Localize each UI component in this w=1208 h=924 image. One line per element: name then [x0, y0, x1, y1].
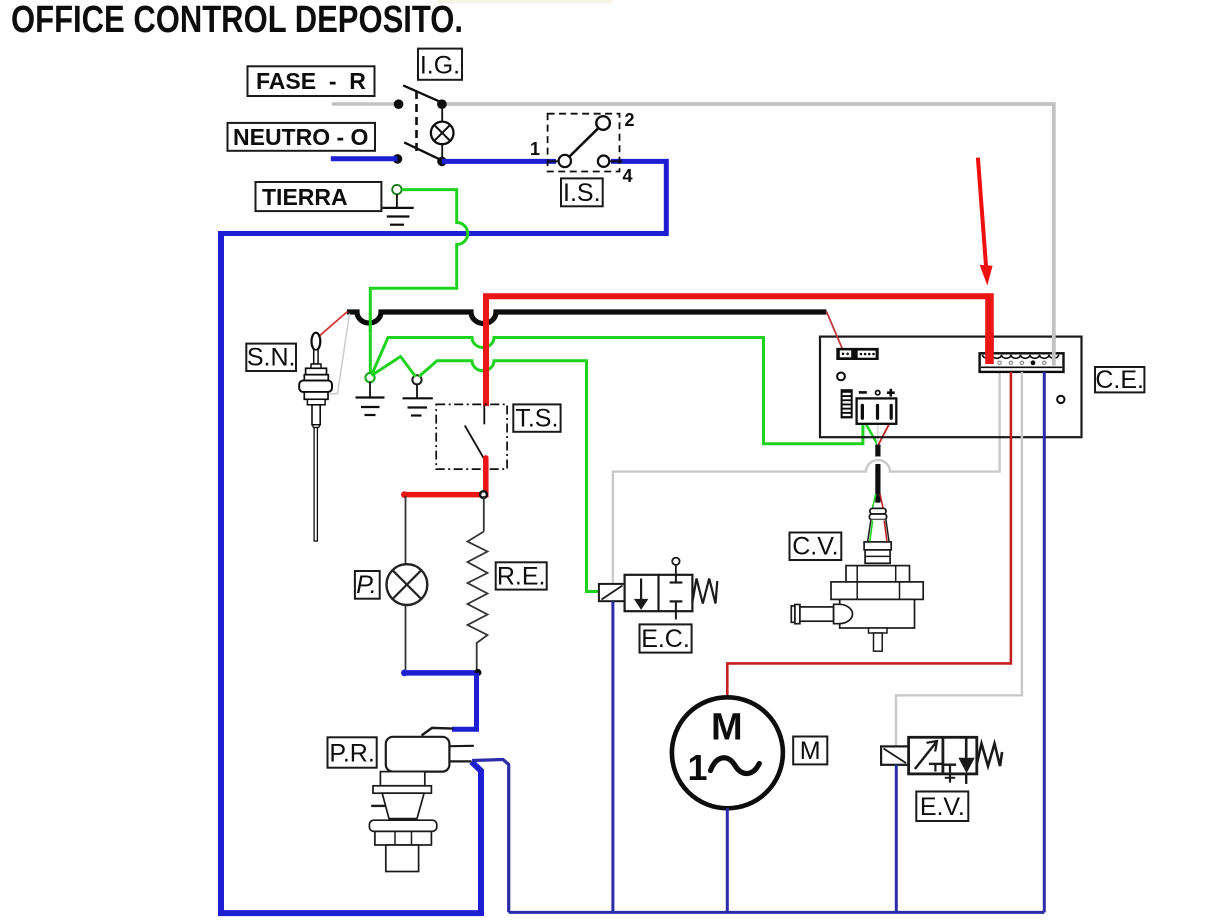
wire thin gray middle slot to cable	[877, 420, 879, 445]
wire neutral blue up to P.R.	[472, 762, 482, 916]
label box P.	[355, 571, 380, 599]
label box S.N.	[246, 344, 296, 372]
svg-text:I.G.: I.G.	[420, 52, 460, 80]
svg-text:1: 1	[687, 747, 707, 788]
valve E.V. body	[909, 737, 977, 774]
cable to C.V.	[875, 445, 880, 503]
blue wire end cap dot	[401, 670, 408, 677]
svg-text:NEUTRO - O: NEUTRO - O	[233, 124, 368, 150]
valve E.C. pilot circle	[672, 558, 679, 575]
wire red bus from T.S. corner to C.E.	[486, 296, 990, 406]
board DIP block	[841, 389, 853, 418]
wire neutral blue bottom thick	[218, 910, 481, 916]
pressure switch P.R. microswitch body	[386, 737, 450, 772]
wire thin blue C.E. to bottom bus	[1043, 372, 1046, 913]
switch I.G. pole 1 (phase)	[394, 85, 447, 109]
control board C.E. outline	[820, 337, 1082, 438]
svg-text:FASE - R: FASE - R	[256, 68, 366, 94]
valve E.C. blocked ports	[670, 575, 683, 620]
wire red T.S. to junction and lamp P.	[404, 458, 486, 495]
valve E.C. flow arrow	[634, 579, 649, 610]
wire lamp P. bottom lead	[405, 605, 407, 671]
earth terminal B	[412, 375, 421, 384]
switch I.S. terminal 4	[598, 156, 609, 167]
switch I.S. leads	[548, 160, 559, 162]
label box C.E.	[1095, 366, 1144, 394]
wire thin gray C.E. to E.V.	[896, 372, 1022, 747]
wire green 2 terminal B to E.C.	[419, 361, 599, 592]
lamp P.	[387, 564, 428, 605]
valve E.V. blocked ports	[929, 764, 956, 783]
wire green link terminal A to B	[372, 357, 416, 377]
svg-text:C.E.: C.E.	[1095, 366, 1144, 394]
board mounting hole left	[837, 373, 845, 381]
label box NEUTRO - O	[228, 123, 376, 151]
label box C.V.	[790, 533, 842, 561]
motor 1~ mark	[687, 747, 759, 788]
junction node lamp/resistor bottom	[474, 669, 481, 676]
lamp inside I.G.	[431, 109, 454, 157]
switch I.S. terminal 1	[559, 155, 571, 167]
wire neutral blue I.G. to I.S.	[442, 159, 556, 164]
label box E.C.	[640, 624, 692, 653]
label box R.E.	[496, 562, 547, 590]
red wire end cap dot	[401, 491, 408, 498]
switch I.G. pole 2 (neutral)	[393, 142, 447, 166]
svg-text:T.S.: T.S.	[515, 404, 558, 432]
earth terminal A	[365, 373, 374, 382]
wire earth green from TIERRA down-left to terminal A	[370, 190, 467, 374]
board connector J2 (3 slots)	[857, 398, 897, 423]
C.V. spout	[791, 604, 852, 623]
wire thin red C.E. to motor M	[727, 372, 1011, 698]
wire phase gray main to C.E.	[442, 104, 1054, 365]
wire thin red bus end to board connector	[827, 312, 843, 350]
label box M	[793, 737, 827, 766]
valve E.C. solenoid	[599, 584, 625, 601]
ground symbol B	[403, 384, 433, 416]
wire thin blue bottom bus	[509, 911, 1045, 914]
wire thin red bus to S.N. eyelet	[318, 312, 347, 337]
wire gray main end overlay into strip	[1052, 333, 1056, 366]
pressure switch P.R. NO lead	[449, 760, 471, 762]
label box I.S.	[561, 178, 603, 206]
resistor R.E. top lead	[483, 496, 485, 532]
board connector J1 (top-left)	[836, 348, 878, 360]
valve E.V. exhaust arrow	[958, 737, 974, 784]
thermostat T.S. dash-dot box	[436, 404, 507, 469]
C.V. flange 1	[846, 566, 910, 582]
C.V. plug neck with strands	[868, 520, 890, 542]
svg-text:P.R.: P.R.	[329, 739, 374, 767]
thermostat T.S. contact	[465, 406, 485, 459]
ground symbol A	[356, 382, 385, 415]
polarity marks - o +	[859, 389, 895, 397]
svg-text:M: M	[800, 737, 821, 765]
earth terminal at TIERRA	[392, 185, 401, 208]
wire green overlay through bus hop	[369, 313, 372, 332]
wire green 1 terminal A to C.E. connector	[372, 338, 863, 444]
cable colored strands	[873, 494, 884, 508]
label box T.S.	[513, 404, 560, 432]
wire thin blue E.C. to bottom bus	[611, 601, 614, 912]
pressure switch P.R. body stack	[369, 772, 436, 872]
wire thin blue P.R. NO to bottom bus	[472, 760, 509, 913]
C.V. flange 2	[831, 582, 923, 600]
C.V. bottom nozzle	[869, 628, 888, 651]
svg-text:S.N.: S.N.	[247, 344, 296, 372]
valve E.V. solenoid	[881, 746, 909, 764]
svg-text:E.C.: E.C.	[641, 625, 690, 653]
label box P.R.	[328, 737, 377, 767]
svg-text:M: M	[711, 707, 743, 749]
wire thin blue E.V. to bottom bus	[895, 765, 898, 913]
pressure switch P.R. NC lead	[449, 745, 474, 748]
valve E.C. body	[625, 575, 693, 611]
board mounting hole right	[1057, 396, 1064, 403]
motor M circle	[672, 697, 783, 808]
wire red bus end overlay into strip	[985, 333, 994, 364]
svg-text:P.: P.	[356, 571, 376, 599]
switch I.S. dashed box	[548, 114, 620, 172]
C.V. plug rings	[869, 508, 886, 519]
svg-text:2: 2	[625, 110, 635, 130]
board terminal strip	[980, 353, 1064, 372]
valve E.C. spring	[692, 579, 717, 604]
wire lamp P. top lead	[405, 496, 407, 564]
junction node below T.S.	[480, 491, 487, 498]
wire blue junction under lamp P.	[404, 670, 478, 676]
pressure switch P.R. common lead	[422, 728, 454, 736]
svg-text:4: 4	[623, 166, 633, 186]
wire neutral blue left bus vertical	[218, 231, 224, 916]
svg-text:1: 1	[530, 139, 540, 159]
switch I.G. mechanical link (dashed)	[415, 91, 418, 152]
svg-text:R.E.: R.E.	[497, 562, 546, 590]
resistor R.E. zigzag	[468, 532, 488, 672]
label box E.V.	[916, 792, 968, 822]
valve E.V. flow arrow (open head)	[915, 741, 937, 769]
wire thin gray C.E. to E.C. with hop over cable	[866, 460, 890, 471]
svg-text:E.V.: E.V.	[920, 793, 965, 821]
wire thin gray bus to S.N. body	[330, 314, 350, 395]
C.V. main body	[840, 599, 915, 628]
probe S.N. body	[299, 350, 332, 541]
wire neutral blue stub	[331, 156, 398, 161]
valve E.V. spring	[977, 744, 1002, 767]
ground symbol TIERRA	[383, 208, 414, 225]
svg-text:OFFICE CONTROL DEPOSITO.: OFFICE CONTROL DEPOSITO.	[11, 0, 463, 41]
probe S.N. eyelet	[312, 333, 321, 350]
svg-text:C.V.: C.V.	[792, 533, 838, 561]
strip pins	[998, 360, 1046, 365]
wire green slot diagonal to cable	[864, 420, 878, 445]
svg-text:TIERRA: TIERRA	[262, 184, 348, 210]
red annotation arrow	[978, 158, 993, 286]
C.V. coil	[864, 542, 891, 563]
switch I.S. terminal 2	[596, 116, 610, 130]
wire phase gray stub	[332, 102, 399, 105]
wire thin blue motor to bottom bus	[726, 808, 729, 912]
wire thin red right slot to cable	[879, 420, 892, 445]
switch I.S. blade	[568, 126, 601, 159]
svg-text:I.S.: I.S.	[563, 179, 601, 207]
label box TIERRA	[256, 182, 382, 211]
black bus with hops	[347, 312, 826, 324]
wire thick blue junction down to P.R. common	[452, 673, 477, 729]
label box FASE - R	[248, 66, 375, 96]
label box I.G.	[418, 49, 462, 80]
wire neutral blue I.S. to right corner and back to left bus	[221, 161, 666, 233]
